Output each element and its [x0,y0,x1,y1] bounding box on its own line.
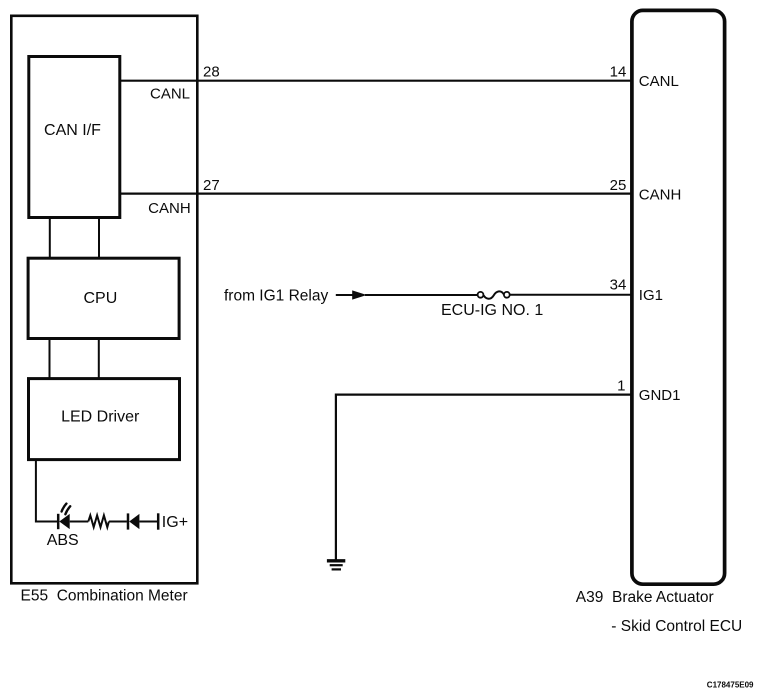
svg-text:GND1: GND1 [639,387,681,404]
ECU box A39 Brake Actuator - Skid Control ECU [632,10,725,584]
wire diode to IG+ terminal [139,521,157,523]
wire GND1 pin 1 [336,395,631,560]
box CAN I/F U1 [29,57,120,218]
box CPU U2 [28,258,179,338]
wire CPU to LED Driver (left) [49,339,51,378]
wire CPU to LED Driver (right) [98,339,100,378]
IG+ terminal bar [157,513,160,529]
wire CAN I/F to CPU (left) [49,219,51,258]
diode D2 [128,513,139,529]
svg-text:CANL: CANL [639,73,679,90]
svg-text:34: 34 [610,277,627,294]
svg-text:LED Driver: LED Driver [61,408,140,425]
svg-text:C178475E09: C178475E09 [707,680,754,689]
ground symbol [327,561,345,570]
svg-text:A39 Brake Actuator: A39 Brake Actuator [576,589,714,606]
svg-text:27: 27 [203,177,220,194]
svg-text:CANH: CANH [639,186,682,203]
resistor R1 [88,515,109,527]
wire LED to resistor [70,521,89,523]
svg-text:E55 Combination Meter: E55 Combination Meter [21,588,188,605]
svg-text:IG1: IG1 [639,287,663,304]
wire arrow to fuse [365,294,478,296]
wire CANL pin28 to pin14 [120,80,631,82]
wire fuse to pin 34 [510,294,631,296]
svg-text:1: 1 [617,378,625,395]
svg-text:CAN I/F: CAN I/F [44,122,101,139]
box LED Driver U3 [29,379,180,460]
svg-text:CANL: CANL [150,86,190,103]
svg-text:IG+: IG+ [162,514,188,531]
LED D1 (ABS indicator) [58,514,69,529]
wire resistor to diode [109,521,127,523]
svg-text:- Skid Control ECU: - Skid Control ECU [611,618,742,635]
svg-text:CPU: CPU [84,290,118,307]
svg-text:14: 14 [610,63,627,80]
wire IG1 relay feed [336,294,353,296]
svg-text:28: 28 [203,63,220,80]
svg-text:ABS: ABS [47,532,79,549]
LED emission arrows [62,504,71,515]
svg-text:CANH: CANH [148,200,191,217]
svg-text:from IG1 Relay: from IG1 Relay [224,288,328,305]
outer box E55 Combination Meter [11,16,197,584]
wire CANH pin27 to pin25 [120,193,631,195]
svg-text:25: 25 [610,177,627,194]
wire LED Driver to ABS LED [36,460,57,522]
svg-text:ECU-IG NO. 1: ECU-IG NO. 1 [441,302,543,319]
fuse ECU-IG NO. 1 [478,291,510,298]
arrow IG1 flow [352,290,367,299]
wire CAN I/F to CPU (right) [98,219,100,258]
